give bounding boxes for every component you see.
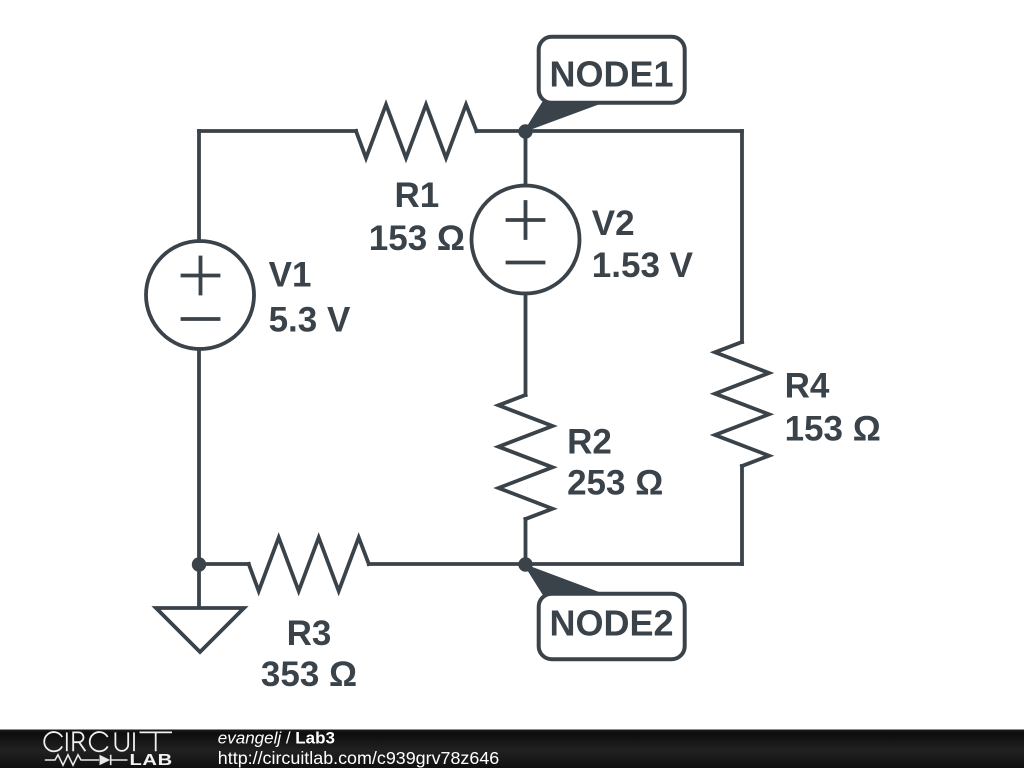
logo resistor-diode glyph — [45, 755, 128, 766]
svg-text:V1: V1 — [269, 256, 312, 295]
svg-text:R3: R3 — [287, 614, 332, 653]
callout NODE2 tail — [526, 566, 602, 596]
svg-text:353 Ω: 353 Ω — [261, 655, 357, 694]
footer bar — [0, 730, 1024, 768]
svg-text:NODE2: NODE2 — [549, 603, 673, 644]
svg-text:R1: R1 — [395, 176, 440, 215]
resistor R1 — [356, 105, 477, 159]
wire: right rail upper (top corner down to R4) — [740, 131, 744, 342]
wire: top rail right segment (R1 to node NODE1 to right rail) — [477, 129, 743, 133]
wire: ground stem — [197, 564, 201, 607]
wire: bottom rail right (NODE2 to right rail) — [526, 562, 743, 566]
callout NODE1 box — [539, 37, 685, 103]
svg-text:153 Ω: 153 Ω — [369, 219, 465, 258]
resistor R2 — [499, 395, 553, 519]
wire: top rail left segment (V1 top to R1) — [199, 129, 356, 133]
resistor R4 — [715, 342, 769, 466]
callout NODE2 box — [539, 594, 685, 660]
voltage source V1 — [146, 241, 254, 349]
logo CIRCUIT wordmark — [44, 732, 172, 751]
node junction dot at ground — [192, 557, 206, 571]
callout NODE1 tail — [526, 101, 602, 131]
svg-text:153 Ω: 153 Ω — [785, 409, 881, 448]
node junction dot NODE2 — [518, 557, 532, 571]
svg-text:R4: R4 — [785, 366, 830, 405]
svg-text:253 Ω: 253 Ω — [567, 464, 663, 503]
svg-text:evangelj / Lab3: evangelj / Lab3 — [218, 729, 335, 748]
svg-text:R2: R2 — [567, 423, 612, 462]
wire: middle branch (V2 to R2) — [524, 294, 528, 396]
voltage source V2 — [472, 186, 580, 294]
svg-text:LAB: LAB — [130, 751, 173, 768]
svg-text:5.3 V: 5.3 V — [269, 301, 351, 340]
svg-text:1.53 V: 1.53 V — [592, 246, 694, 285]
ground symbol — [156, 608, 244, 652]
wire: right rail lower (R4 to bottom rail) — [740, 466, 744, 564]
wire: left rail lower (V1 to ground junction) — [197, 349, 201, 564]
wire: middle branch bottom (R2 to NODE2) — [524, 519, 528, 564]
wire: bottom rail middle (R3 to NODE2) — [369, 562, 526, 566]
wire: middle branch top (NODE1 to V2) — [524, 131, 528, 186]
logo diode triangle — [100, 755, 111, 766]
wire: bottom rail left (junction to R3) — [199, 562, 249, 566]
svg-text:http://circuitlab.com/c939grv7: http://circuitlab.com/c939grv78z646 — [218, 748, 499, 768]
svg-text:NODE1: NODE1 — [549, 54, 673, 95]
node junction dot NODE1 — [518, 124, 532, 138]
svg-text:V2: V2 — [592, 204, 635, 243]
resistor R3 — [249, 538, 369, 592]
wire: left rail upper (top corner down to V1) — [197, 131, 201, 241]
